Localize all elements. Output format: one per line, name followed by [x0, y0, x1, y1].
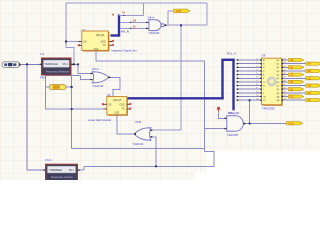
svg-text:CLK1: CLK1 [288, 123, 295, 126]
svg-text:G: G [263, 82, 265, 84]
svg-text:74HC00: 74HC00 [148, 31, 159, 35]
svg-text:CEO: CEO [101, 41, 106, 44]
instrument FM1 (Frequency Measurer) [40, 52, 74, 80]
svg-text:U5:A: U5:A [92, 67, 99, 71]
svg-text:FC1: FC1 [45, 158, 51, 162]
bus HA (thick) [111, 15, 120, 37]
wire: AND U6 nets [219, 100, 287, 123]
wire: FM1 right pin to OR gate [72, 64, 93, 73]
svg-text:7A: 7A [122, 10, 126, 14]
OR gate U5 [91, 67, 111, 88]
flags right column 1 [288, 58, 304, 98]
svg-text:FM1: FM1 [40, 76, 46, 80]
svg-text:P0.1: P0.1 [69, 170, 74, 172]
svg-text:CK: CK [83, 41, 87, 44]
instrument FC1 (Frequency Counter) [43, 158, 79, 180]
NAND gate U4 [146, 15, 166, 35]
svg-text:CEO: CEO [120, 103, 125, 106]
wire: IC right pins to flags [282, 60, 306, 100]
wire: FM1 bottom nets [46, 76, 205, 149]
clock generator source [2, 62, 22, 68]
pin numbers near IC [256, 58, 286, 100]
svg-text:P0.1: P0.1 [63, 64, 68, 66]
bus POL_C (thick) [127, 59, 235, 111]
svg-text:CAR: CAR [176, 10, 181, 13]
AND gate U6 [225, 111, 246, 137]
wire: U7 output to U3 bottom pin [117, 115, 136, 134]
svg-text:QB: QB [276, 100, 280, 102]
counter U2 [78, 28, 137, 53]
flag CLK (bottom right) [287, 122, 303, 126]
svg-text:J: J [263, 93, 264, 95]
svg-text:CK: CK [263, 96, 267, 98]
svg-text:74HC32: 74HC32 [132, 142, 143, 146]
svg-text:74HC08: 74HC08 [227, 133, 238, 137]
wire: feedback rail top [66, 3, 207, 130]
svg-text:TC: TC [103, 44, 106, 47]
svg-text:U4:A: U4:A [148, 15, 155, 19]
svg-text:QC: QC [133, 26, 137, 29]
wire: clock net [22, 64, 46, 170]
crystal X1 [49, 85, 66, 90]
svg-text:CLR: CLR [94, 48, 99, 51]
IC pin end marks [237, 59, 283, 101]
svg-text:CLR: CLR [114, 111, 119, 114]
OR gate U7 (mirrored) [132, 120, 152, 146]
svg-text:POL_CB: POL_CB [228, 111, 239, 115]
wire: U2 bottom feedback to AND gate and bottom loop [78, 51, 227, 170]
svg-text:74HC32: 74HC32 [92, 84, 103, 88]
svg-text:POL_C: POL_C [227, 51, 236, 55]
svg-text:U8: U8 [261, 54, 265, 58]
wire: bus taps to NAND [119, 3, 149, 28]
svg-text:CK: CK [108, 103, 112, 106]
svg-text:HA_N: HA_N [121, 29, 129, 33]
svg-text:QB: QB [133, 20, 137, 23]
flag CAR (top) [174, 9, 190, 13]
svg-text:U5:B: U5:B [135, 120, 141, 124]
svg-text:74HC595: 74HC595 [262, 107, 275, 111]
svg-text:TC: TC [122, 108, 125, 111]
bus labels near HA bus [112, 10, 136, 33]
svg-text:U1: U1 [40, 52, 44, 56]
power flag (red) [216, 107, 220, 113]
wire: OR U5 output to U3 top pin [109, 77, 120, 96]
flags right column 2 [306, 62, 320, 102]
IC U8 74HC595 [261, 54, 282, 111]
counter U3 [88, 93, 131, 122]
wire: bus to IC left pins [237, 60, 262, 100]
